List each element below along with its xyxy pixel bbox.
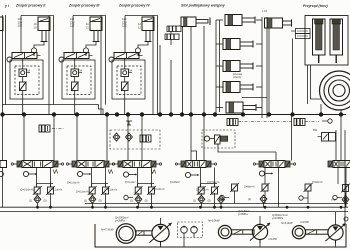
wire valve R2 riser right bbox=[106, 115, 108, 161]
fixture frame bbox=[305, 16, 348, 66]
node bus-2 bbox=[22, 112, 26, 116]
wire stub stack right bbox=[256, 19, 262, 21]
svg-text:Q=0,1dm³/s: Q=0,1dm³/s bbox=[196, 189, 209, 192]
wire valve R5 riser left bbox=[275, 152, 277, 161]
wire diamond to return 1 bbox=[36, 203, 38, 208]
check valve K1 bbox=[34, 195, 41, 203]
valve enclosure (solid) group 3 bbox=[62, 60, 95, 99]
spring block in enclosure bbox=[221, 136, 228, 141]
wire stack manifold lower bbox=[242, 96, 267, 98]
wire diamond to return 4 bbox=[200, 203, 202, 208]
node bus-17 bbox=[290, 112, 294, 116]
wire valve R4 drop left bbox=[200, 168, 202, 188]
manifold enclosure (dashed) mid bbox=[110, 130, 160, 149]
wire valve R2 riser left bbox=[76, 115, 78, 161]
wire valve R2 drop right bbox=[105, 168, 107, 188]
wire riser stack-left2 bbox=[170, 60, 172, 115]
wire diamond 6 bbox=[220, 203, 222, 207]
node return bbox=[150, 206, 153, 209]
wire through valve group 3 bbox=[74, 59, 76, 70]
wire riser V a bbox=[182, 26, 184, 115]
wire riser group 3 b bbox=[105, 16, 107, 105]
wire left drop group 3 bbox=[72, 16, 74, 53]
dash-dot tail F3 bbox=[238, 121, 292, 123]
aux pump enclosure (dashed) bbox=[178, 222, 203, 238]
wire aux pump suction bbox=[183, 233, 185, 247]
gauge at enclosure group 3 bbox=[59, 57, 64, 62]
wire under Z9 bbox=[234, 191, 236, 204]
pipe from CYL3 rod to gauge bbox=[86, 42, 96, 48]
wire diamond to return 3 bbox=[137, 203, 139, 208]
pump enclosure (dashed) mid-right bbox=[202, 130, 235, 148]
relief valve Z2 bbox=[46, 186, 55, 195]
gauge below CYL3 bbox=[83, 48, 88, 53]
mini valve cluster b bbox=[165, 34, 179, 40]
wire riser pusher b bbox=[292, 39, 294, 115]
top pilot valve group 3 bbox=[64, 53, 93, 59]
wire diamond 8 bbox=[345, 203, 347, 207]
gauge below CYL2 bbox=[31, 48, 36, 53]
node bus-15 bbox=[241, 112, 245, 116]
wire under Z5 bbox=[137, 193, 139, 196]
relief valve V4b bbox=[121, 82, 129, 92]
wire riser group 3 a bbox=[100, 16, 102, 115]
node bus-3 bbox=[52, 112, 56, 116]
svg-text:(Q=0,1dm³/s): (Q=0,1dm³/s) bbox=[20, 189, 34, 192]
gauge M3 bbox=[123, 172, 136, 177]
wire gauge-to-valve group 3 bbox=[85, 53, 87, 56]
mini valve cluster a bbox=[167, 26, 181, 32]
wire under Z1 bbox=[36, 193, 38, 196]
wire enclosure exit bbox=[218, 144, 276, 152]
check valve K2 bbox=[126, 133, 133, 141]
drive shaft bbox=[305, 230, 328, 234]
node return bbox=[264, 206, 267, 209]
wire valve R3 riser right bbox=[141, 115, 143, 161]
wire aux pump b suction bbox=[193, 233, 195, 237]
node bus-7 bbox=[126, 112, 130, 116]
pump P1 bbox=[149, 223, 171, 245]
svg-text:Q=20dm³: Q=20dm³ bbox=[170, 181, 180, 184]
cylinder FC2 bbox=[330, 19, 343, 63]
node return bbox=[91, 206, 94, 209]
node return bbox=[136, 206, 139, 209]
svg-text:(5): (5) bbox=[208, 199, 211, 203]
node bus-10 bbox=[169, 112, 173, 116]
gauge at enclosure group 4 bbox=[109, 57, 114, 62]
svg-text:10J10V10Z: 10J10V10Z bbox=[18, 17, 23, 28]
check valve K7 bbox=[260, 195, 267, 203]
pump P2 bbox=[250, 223, 270, 243]
wire under Z8 bbox=[214, 193, 216, 207]
circulation pump P0 bbox=[204, 136, 209, 141]
node bus-4 bbox=[75, 112, 79, 116]
electric motor EM1 bbox=[116, 224, 136, 244]
directional valve R3 bbox=[112, 161, 161, 168]
wire top stub group 4 bbox=[125, 15, 158, 17]
wire collector group 2 bbox=[92, 183, 109, 185]
wire pilot bus elbow bbox=[99, 105, 104, 115]
wire coil drop right bbox=[340, 110, 342, 115]
relief valve Z6 bbox=[147, 186, 156, 195]
cylinder CYL2 (press group 2) bbox=[38, 17, 50, 42]
dash-dot tail F4 bbox=[305, 121, 319, 123]
svg-text:n=1450: n=1450 bbox=[268, 237, 277, 241]
svg-text:Przyrząd (toru): Przyrząd (toru) bbox=[303, 4, 329, 8]
wire: main pressure bus bbox=[2, 114, 346, 116]
wire under Z6 bbox=[151, 193, 153, 207]
cylinder CYL3 (press group 3) bbox=[90, 17, 102, 42]
wire collector group 4 bbox=[201, 183, 218, 185]
wire valve R4 riser right bbox=[203, 115, 205, 161]
svg-text:Zespół prasowy II: Zespół prasowy II bbox=[15, 4, 46, 8]
cylinder HC0 (stol feed) bbox=[181, 17, 210, 27]
wire: return line upper bbox=[85, 203, 348, 205]
valve enclosure (dashed) group 4 bbox=[117, 66, 141, 95]
filter F2 bbox=[140, 135, 151, 142]
relief valve Z4 bbox=[101, 186, 110, 195]
node bus-13 bbox=[202, 112, 206, 116]
wire P0 to valve bbox=[210, 138, 215, 140]
wire left drop group 4 bbox=[124, 16, 126, 53]
wire under Z10 bbox=[264, 191, 266, 204]
wire riser pusher a bbox=[268, 28, 270, 115]
cylinder HC2 bbox=[223, 39, 253, 50]
wire valve R1 riser left bbox=[23, 115, 25, 161]
wire valve R3 riser left bbox=[127, 115, 129, 161]
node return bbox=[49, 206, 52, 209]
wire valve R4 riser left bbox=[190, 115, 192, 161]
wire stub stack right bbox=[256, 86, 262, 88]
wire stub stack bbox=[216, 65, 223, 67]
wire valve R5 drops bbox=[264, 168, 266, 185]
cylinder HC1 bbox=[225, 15, 255, 26]
relief valve Z10 bbox=[261, 183, 270, 192]
wire riser group I a bbox=[2, 15, 4, 115]
wire stub stack bbox=[216, 43, 223, 45]
aux pump Pb bbox=[191, 227, 198, 234]
wire pump2 suction bbox=[259, 240, 261, 247]
gauge M1 bbox=[23, 171, 36, 176]
relief valve Z3 bbox=[88, 186, 97, 195]
electric motor EM3 bbox=[292, 226, 305, 239]
wire valve R6 risers bbox=[335, 130, 337, 161]
wire pump1 suction bbox=[160, 242, 162, 247]
cylinder FC1 bbox=[313, 19, 326, 63]
wire top stub group 2 bbox=[21, 15, 54, 17]
wire frame drop a bbox=[307, 65, 309, 104]
svg-text:(1): (1) bbox=[84, 199, 87, 203]
filter F3 bbox=[227, 119, 238, 126]
gauge M4 bbox=[185, 172, 198, 177]
wire pump risers bbox=[160, 218, 162, 225]
wire stub stack bbox=[216, 107, 223, 109]
svg-text:(2): (2) bbox=[248, 198, 251, 201]
electric motor EM2 bbox=[218, 225, 231, 238]
filter F1 bbox=[39, 125, 50, 132]
wire stub stack bbox=[216, 86, 223, 88]
relief valve Z8 bbox=[210, 186, 219, 195]
svg-text:Q=0,1dm³/s: Q=0,1dm³/s bbox=[105, 189, 118, 192]
wire drop right edge bbox=[344, 130, 346, 224]
relief valve Z11 bbox=[304, 183, 313, 192]
heat exchanger coil bbox=[320, 71, 350, 110]
gauge M5 on bus bbox=[328, 119, 332, 123]
svg-text:n=1500: n=1500 bbox=[300, 220, 309, 224]
wire: return line lower bbox=[0, 211, 348, 213]
svg-text:Zespół prasowy III: Zespół prasowy III bbox=[68, 4, 100, 8]
wire stub stack right bbox=[256, 65, 262, 67]
directional valve R2 bbox=[66, 161, 114, 168]
wire under Z2 bbox=[50, 193, 52, 207]
gauge below CYL4 bbox=[135, 48, 140, 53]
wire riser stack-left bbox=[159, 45, 161, 115]
relief valve Z9 bbox=[230, 183, 239, 192]
node bus-1 bbox=[0, 112, 4, 116]
svg-text:(1): (1) bbox=[193, 199, 196, 203]
svg-text:N=4,0kW: N=4,0kW bbox=[281, 221, 293, 225]
tank symbol T1 bbox=[126, 121, 132, 125]
cylinder HC5 bbox=[226, 102, 256, 113]
wire R0 drop bbox=[2, 115, 4, 161]
wire step V bbox=[191, 151, 197, 161]
spring symbol under R1 bbox=[53, 170, 58, 174]
wire: pilot bus bbox=[2, 104, 99, 106]
svg-text:Q=6dm³/s: Q=6dm³/s bbox=[312, 181, 323, 184]
node return bbox=[199, 206, 202, 209]
wire riser V b bbox=[190, 26, 192, 115]
node bus-19 bbox=[339, 112, 343, 116]
svg-text:Q=0,1dm³/s: Q=0,1dm³/s bbox=[152, 188, 165, 191]
node bus-6 bbox=[115, 112, 119, 116]
svg-text:(5): (5) bbox=[145, 199, 148, 203]
wire stub stack right bbox=[256, 107, 262, 109]
wire gauge-to-valve group 4 bbox=[137, 53, 139, 56]
wire valve R3 drop right bbox=[151, 168, 153, 188]
wire stack right manifold b bbox=[266, 17, 268, 118]
svg-text:6W: 6W bbox=[313, 128, 318, 132]
wire valve R2 drop left bbox=[91, 168, 93, 188]
drive shaft bbox=[232, 230, 254, 234]
svg-text:Stół podbijakowy wstępny: Stół podbijakowy wstępny bbox=[181, 4, 226, 8]
valve enclosure (dashed) group 3 bbox=[67, 66, 91, 95]
relief valve V2b bbox=[19, 82, 27, 92]
cylinder HC3 bbox=[223, 61, 253, 72]
pipe from CYL2 rod to gauge bbox=[34, 42, 44, 48]
node bus-14 bbox=[213, 112, 217, 116]
wire under Z3 bbox=[91, 193, 93, 196]
node return bbox=[104, 206, 107, 209]
svg-text:(1): (1) bbox=[29, 199, 32, 203]
wire collector group 1 bbox=[37, 183, 54, 185]
node return bbox=[36, 206, 39, 209]
svg-text:przesuwroboczy: przesuwroboczy bbox=[233, 73, 242, 79]
wire riser group 2 b bbox=[53, 16, 55, 105]
gauge M0 (partial) bbox=[0, 172, 3, 177]
node return bbox=[286, 206, 289, 209]
wire stub stack bbox=[216, 19, 223, 21]
check valve K6 bbox=[218, 196, 225, 204]
svg-text:Q=0,1dm³: Q=0,1dm³ bbox=[125, 181, 136, 184]
gauge M2 bbox=[77, 171, 90, 176]
valve block right-mid bbox=[318, 133, 336, 142]
wire valve R1 drop left bbox=[36, 168, 38, 188]
svg-text:c.10: c.10 bbox=[262, 9, 267, 13]
relief valve Z5 bbox=[134, 186, 143, 195]
wire pump3 suction bbox=[335, 240, 337, 247]
node bus-18 bbox=[319, 112, 323, 116]
wire stack right manifold a bbox=[261, 17, 263, 118]
wire riser V c bbox=[203, 26, 205, 115]
wire gauge-to-valve group 2 bbox=[33, 53, 35, 56]
top pilot valve group 4 bbox=[114, 53, 143, 59]
valve in enclosure bbox=[215, 135, 221, 144]
node return bbox=[213, 206, 216, 209]
node bus-8 bbox=[140, 112, 144, 116]
svg-text:1212: 1212 bbox=[138, 22, 141, 29]
spring symbol under R2 bbox=[108, 170, 113, 174]
valve enclosure (solid) group 4 bbox=[112, 60, 145, 99]
pilot check valve V4a bbox=[121, 69, 133, 77]
cylinder CYL1 (partial, left edge) bbox=[0, 17, 3, 31]
svg-text:12J12V12Z: 12J12V12Z bbox=[122, 17, 127, 28]
valve enclosure (solid) group 2 bbox=[10, 60, 43, 99]
check valve K1 bbox=[113, 133, 120, 141]
directional valve R1 bbox=[11, 161, 63, 168]
dash-dot tail F1 bbox=[52, 128, 64, 130]
svg-text:Q=0,1dm³/s: Q=0,1dm³/s bbox=[76, 191, 89, 194]
cylinder HC6 (pusher) bbox=[265, 18, 292, 28]
pilot check valve V3a bbox=[71, 69, 83, 77]
relief valve Z1 bbox=[33, 186, 42, 195]
wire top stub group 3 bbox=[73, 15, 106, 17]
svg-text:(1): (1) bbox=[130, 199, 133, 203]
gauge at enclosure group 2 bbox=[7, 57, 12, 62]
wire under Z12 bbox=[345, 192, 347, 204]
wire under Z4 bbox=[105, 193, 107, 207]
svg-text:11J11V11Z: 11J11V11Z bbox=[70, 17, 75, 28]
cylinder HC4 bbox=[223, 82, 253, 93]
wire valve R4 drop right bbox=[214, 168, 216, 188]
directional valve R4 bbox=[175, 161, 216, 168]
gauge M5 bbox=[259, 171, 272, 176]
node return bbox=[220, 206, 223, 209]
tank outline bbox=[95, 224, 346, 247]
filter F4 bbox=[294, 119, 305, 126]
wire stub stack right bbox=[256, 43, 262, 45]
gauge top-right corner bbox=[344, 217, 348, 221]
svg-text:Q=0,1dm³/s: Q=0,1dm³/s bbox=[67, 182, 80, 185]
spring symbol under R3 bbox=[151, 170, 156, 174]
wire frame drop b bbox=[311, 65, 322, 99]
svg-text:Q=0,5dm³/s: Q=0,5dm³/s bbox=[207, 181, 220, 184]
wire collector group 3 bbox=[138, 183, 155, 185]
wire valve R6 drops bbox=[337, 168, 339, 185]
cylinder CYL4 (press group 4) bbox=[142, 17, 154, 42]
wire diamond 7 bbox=[263, 202, 265, 207]
node bus-5 bbox=[105, 112, 109, 116]
svg-text:Q=6dm³/s: Q=6dm³/s bbox=[244, 186, 255, 189]
wire stack left manifold a bbox=[215, 20, 217, 114]
relief valve Z7 bbox=[197, 186, 206, 195]
node bus-16 bbox=[267, 112, 271, 116]
node bus-9 bbox=[158, 112, 162, 116]
wire under Z7 bbox=[200, 193, 202, 196]
wire: return line middle bbox=[0, 206, 348, 208]
svg-text:(5): (5) bbox=[99, 199, 102, 203]
directional valve R0 (partial) bbox=[0, 161, 7, 168]
wire valve R3 drop left bbox=[137, 168, 139, 188]
directional valve R6 bbox=[328, 161, 350, 168]
wire through valve group 4 bbox=[124, 59, 126, 70]
node return bbox=[307, 206, 310, 209]
svg-text:1010: 1010 bbox=[34, 22, 37, 29]
relief valve V3b bbox=[71, 82, 79, 92]
wire valve R1 drop right bbox=[50, 168, 52, 188]
pump P3 bbox=[325, 223, 345, 243]
check valve K4 bbox=[198, 195, 205, 203]
svg-text:(5): (5) bbox=[44, 199, 47, 203]
pilot check valve V2a bbox=[19, 69, 31, 77]
svg-text:N=10kW: N=10kW bbox=[208, 219, 221, 223]
wire riser group 4 b bbox=[157, 16, 159, 115]
relief valve Z12 bbox=[341, 184, 350, 193]
aux pump Pa bbox=[181, 227, 188, 234]
svg-text:Zespół prasowy IV: Zespół prasowy IV bbox=[118, 4, 150, 8]
drive shaft bbox=[136, 231, 152, 235]
node return bbox=[340, 206, 343, 209]
pipe from CYL4 rod to gauge bbox=[138, 42, 148, 48]
wire riser group 4 a bbox=[152, 16, 154, 115]
node bus-12 bbox=[189, 112, 193, 116]
wire left drop group 2 bbox=[20, 16, 22, 53]
top pilot valve group 2 bbox=[12, 53, 41, 59]
node bus-11 bbox=[180, 112, 184, 116]
wire riser group 2 a bbox=[48, 16, 50, 115]
check valve K8 bbox=[342, 196, 349, 204]
wire cluster stub bbox=[170, 32, 172, 35]
svg-text:Q=0,1dm³/s: Q=0,1dm³/s bbox=[50, 189, 63, 192]
directional valve R5 bbox=[253, 161, 295, 168]
valve enclosure (dashed) group 2 bbox=[15, 66, 39, 95]
wire riser group I b bbox=[5, 15, 7, 105]
wire valve R5 riser right bbox=[291, 115, 293, 161]
check valve K2 bbox=[89, 195, 96, 203]
svg-text:N=7,5kW: N=7,5kW bbox=[101, 228, 115, 232]
wire stack left manifold b bbox=[219, 20, 221, 112]
wire under Z11 bbox=[307, 191, 309, 204]
stroke note block bbox=[291, 29, 310, 39]
wire diamond to return 2 bbox=[91, 203, 93, 208]
wire through valve group 2 bbox=[22, 59, 24, 70]
gauges on return line bbox=[124, 195, 128, 199]
check valve K3 bbox=[135, 195, 142, 203]
wire valve R1 riser right bbox=[53, 115, 55, 161]
wire coil outlet to bus bbox=[320, 104, 322, 115]
